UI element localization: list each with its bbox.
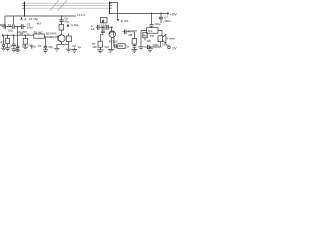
svg-text:4 ohm: 4 ohm: [167, 36, 176, 40]
wire IC input: [141, 29, 147, 31]
resistor R4: [59, 25, 64, 31]
node dot rail start: [109, 13, 111, 15]
cable screen line 3: [25, 7, 109, 9]
connector right: [110, 2, 112, 14]
resistor R9: [143, 33, 147, 38]
wire emitter gnd drop: [56, 44, 58, 48]
ground R8: [131, 50, 137, 53]
volume chain: [116, 45, 118, 47]
cable screen line 1: [25, 2, 109, 4]
wire speaker bottom: [149, 42, 160, 47]
wire input chain right: [96, 26, 113, 28]
capacitor C4: [16, 48, 19, 51]
capacitor C7: [159, 13, 163, 23]
wire vertical to gnd: [17, 27, 19, 48]
svg-text:+9V: +9V: [170, 12, 177, 16]
resistor R1: [6, 35, 10, 48]
svg-text:R3 4k7: R3 4k7: [34, 30, 43, 34]
wire rail drop R1a: [4, 16, 6, 24]
svg-text:BC549C: BC549C: [46, 32, 57, 36]
wire input left: [2, 26, 26, 28]
ground T2: [108, 37, 114, 52]
ground aux2: [66, 49, 71, 52]
ground T1: [54, 48, 59, 51]
svg-text:100n: 100n: [27, 26, 34, 30]
ground R9: [138, 47, 143, 50]
node dot: [50, 36, 52, 38]
capacitor C9: [98, 25, 99, 30]
svg-text:10k: 10k: [119, 44, 124, 48]
svg-text:220µ: 220µ: [162, 43, 169, 47]
ground R2: [23, 47, 28, 50]
ground aux3: [72, 48, 77, 53]
speaker LS1: [158, 34, 166, 43]
terminal mic: [2, 35, 4, 48]
node dot drop: [102, 26, 104, 28]
wire aux gnd: [67, 44, 69, 49]
connector left: [22, 2, 24, 17]
ground C13: [11, 49, 16, 52]
svg-text:IC1: IC1: [148, 29, 153, 33]
node dot: [31, 46, 32, 47]
resistor R10: [118, 44, 125, 49]
labels: [0, 12, 177, 50]
wire collector out: [122, 31, 134, 33]
resistor R2: [23, 35, 27, 47]
svg-text:47µ: 47µ: [64, 19, 69, 23]
svg-text:R2: R2: [20, 32, 24, 36]
svg-text:10µ: 10µ: [8, 29, 13, 33]
arrow A2 up: [67, 24, 70, 27]
ground R1: [5, 48, 10, 51]
wire base rail: [2, 34, 34, 36]
svg-text:R8: R8: [129, 33, 133, 37]
capacitor C3: [22, 24, 24, 29]
svg-text:1µ: 1µ: [78, 45, 82, 49]
resistor R5: [66, 34, 71, 45]
resistor R3: [34, 34, 45, 38]
ground C4: [15, 50, 20, 53]
capacitor C13r: [125, 30, 126, 35]
svg-text:10k: 10k: [22, 43, 27, 47]
svg-text:C5: C5: [38, 44, 42, 48]
cable screen line 2: [25, 5, 109, 7]
rail +9V right: [110, 12, 170, 14]
svg-text:1W: 1W: [150, 34, 155, 38]
capacitor C2: [13, 24, 14, 29]
capacitor C1: [4, 24, 5, 29]
transistor T1: [58, 35, 65, 44]
svg-text:1n: 1n: [126, 45, 130, 49]
svg-text:10k: 10k: [92, 45, 97, 49]
node dot: [151, 13, 153, 15]
ground P1: [97, 47, 103, 53]
svg-text:4µ7: 4µ7: [104, 45, 109, 49]
svg-text:B: B: [121, 19, 123, 23]
svg-text:10µ: 10µ: [101, 27, 106, 31]
ground C14: [43, 50, 48, 53]
resistor P1: [98, 41, 103, 47]
cable break slash 1: [50, 1, 59, 11]
IC1 box: [147, 28, 159, 34]
ground speaker: [147, 47, 153, 52]
capacitor C14: [44, 37, 48, 50]
svg-text:4k7: 4k7: [37, 21, 42, 25]
capacitor C14r: [133, 44, 137, 49]
terminal 0V: [168, 45, 171, 49]
svg-text:IC1: IC1: [124, 19, 129, 23]
wire top hook: [110, 3, 118, 19]
capacitor C10: [107, 25, 108, 30]
node dot: [13, 34, 15, 36]
node dot: [17, 26, 19, 28]
arrow B down: [117, 19, 119, 21]
node dot: [61, 15, 63, 17]
node dot cable shield: [24, 15, 26, 17]
capacitor C15 rail: [59, 16, 63, 25]
node dot spk: [150, 46, 152, 48]
svg-text:1k: 1k: [27, 32, 31, 36]
wire R3 to T1: [44, 36, 58, 38]
wire rail drop R1b: [13, 16, 15, 24]
svg-text:A 10µ: A 10µ: [71, 23, 79, 27]
rail +9V left: [5, 15, 76, 17]
wire R9 bottom stub: [144, 38, 146, 41]
wire to IC: [140, 30, 142, 46]
ground mic: [1, 48, 6, 51]
cable break slash 2: [58, 1, 67, 11]
capacitor C13: [12, 35, 16, 49]
svg-text:MIC: MIC: [0, 23, 5, 27]
node dot: [160, 13, 162, 15]
svg-text:1k: 1k: [33, 45, 37, 49]
stub aux: [31, 45, 33, 49]
wire R4 to T1: [60, 30, 62, 35]
svg-text:+4,5 V: +4,5 V: [77, 13, 85, 17]
svg-text:100µ: 100µ: [154, 22, 161, 26]
svg-text:47µ: 47µ: [15, 44, 20, 48]
svg-text:100n: 100n: [164, 19, 171, 23]
wire IC output: [158, 30, 162, 35]
capacitor C11 drop: [100, 27, 104, 41]
arrow A up: [20, 17, 22, 20]
wire emitter bus: [57, 43, 69, 45]
svg-text:C9: C9: [91, 27, 95, 31]
svg-text:R9: R9: [143, 34, 147, 38]
capacitor C15s: [148, 45, 149, 49]
capacitor C8: [150, 13, 154, 27]
node dot base: [111, 26, 113, 28]
node dot: [7, 34, 9, 36]
switch box S1: [101, 18, 108, 23]
resistor R8: [132, 32, 137, 44]
svg-text:47k: 47k: [146, 39, 151, 43]
transistor T2: [109, 27, 116, 46]
svg-text:C8: C8: [72, 44, 76, 48]
terminal tick: [1, 34, 3, 36]
svg-text:R1: R1: [0, 40, 4, 44]
svg-text:100n: 100n: [152, 43, 159, 47]
svg-text:47µ: 47µ: [48, 45, 53, 49]
node dot: [25, 34, 27, 36]
wire stub left: [144, 46, 147, 48]
capacitor C12: [115, 44, 116, 48]
svg-text:1µ: 1µ: [9, 44, 13, 48]
svg-text:BC550: BC550: [109, 40, 118, 44]
rail end tick: [167, 12, 169, 15]
svg-text:C1: C1: [8, 23, 12, 27]
